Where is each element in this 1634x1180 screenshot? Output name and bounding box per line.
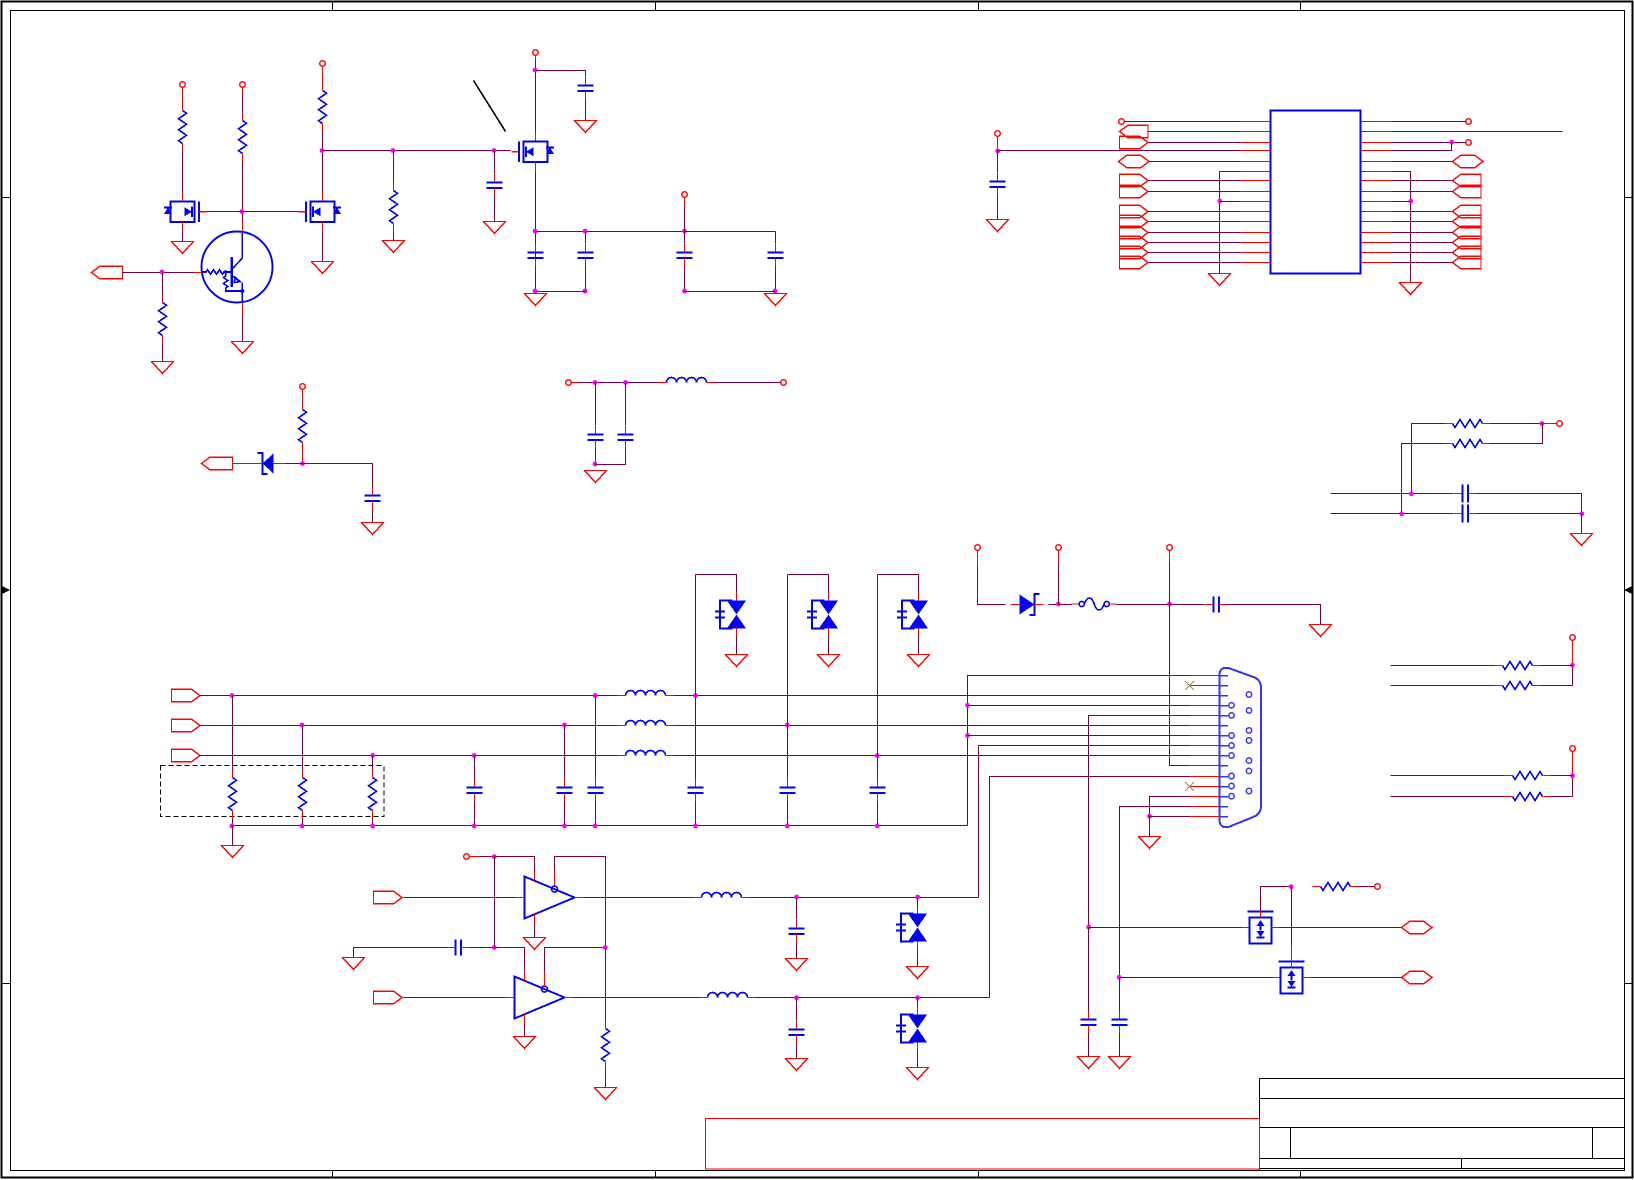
wire J29 down [302, 726, 304, 770]
wire J46 down [1088, 928, 1090, 1012]
lead P8 [977, 551, 979, 566]
power pin P18 [1570, 746, 1576, 752]
ground G14 [1400, 283, 1422, 295]
esd diode D9 [1273, 962, 1311, 994]
junction J41 [915, 895, 920, 900]
wire J40 down [796, 898, 798, 920]
wire R14 down [302, 819, 304, 826]
ground G-D3 [818, 655, 840, 667]
power pin P6 [300, 384, 306, 390]
wire J41 down [917, 898, 919, 906]
wire R7 left [1412, 424, 1445, 494]
ground G11 [585, 471, 607, 483]
lead D9 top [1291, 947, 1293, 962]
capacitor C6 [768, 244, 784, 267]
wire row4 [968, 705, 1190, 707]
flag F3 [1120, 174, 1149, 186]
wire R9 left [1391, 665, 1495, 667]
wire lineB [1331, 513, 1454, 515]
wire R11 right [1551, 775, 1573, 777]
lead U2 en [554, 871, 556, 886]
wire C18-J42 [470, 947, 495, 949]
input arrow A2 [202, 457, 233, 469]
wire F2-pin3 [1149, 142, 1241, 144]
junction J17 [593, 462, 598, 467]
lead T1 [571, 382, 579, 384]
wire Q2 source [182, 232, 184, 242]
junction J14 [300, 461, 305, 466]
wire J25-G15 [1581, 514, 1583, 534]
wire bottom C4-C3 [536, 291, 586, 293]
wire J42-U3 vcc [495, 948, 525, 972]
wire C8 down [595, 449, 597, 465]
lead D1-J14 [274, 463, 286, 465]
flag F9 [1120, 246, 1149, 258]
wire C15 up [595, 696, 597, 780]
capacitor C16 [1205, 597, 1228, 613]
resistor R3 [319, 83, 327, 132]
wire P5 down [684, 209, 686, 244]
wire A1-base [123, 272, 194, 274]
zener diode D5 [1011, 594, 1044, 615]
wire bus3 [201, 755, 618, 757]
ground G3 [383, 241, 405, 253]
power pin P16 [1557, 421, 1563, 427]
junction J22 [1540, 421, 1545, 426]
power pin P5 [682, 192, 688, 198]
junction J16 [623, 380, 628, 385]
wire bus2 b [674, 725, 1190, 727]
input arrow A5 [172, 749, 201, 761]
flag F12 [1453, 185, 1482, 197]
inductor L6 [700, 993, 756, 998]
lead P11 [470, 856, 481, 858]
wire D2 gnd [736, 637, 738, 655]
wire J10 right [685, 231, 776, 233]
wire C13 dn [474, 802, 476, 826]
wire fuse-J35 [1117, 604, 1170, 606]
flag F6 [1120, 215, 1149, 227]
wire R10 left [1391, 685, 1495, 687]
flag F13 [1453, 205, 1482, 217]
flag F16 [1453, 236, 1482, 248]
resistor R1 [179, 103, 187, 152]
junction J33 [370, 824, 375, 829]
junction J32 [300, 824, 305, 829]
junction J-C14t [562, 723, 567, 728]
input arrow A4 [172, 719, 201, 731]
flag F1 out [1120, 125, 1149, 137]
wire J43 down [605, 948, 607, 1021]
wire P4 down [535, 61, 537, 132]
junction J20 [1449, 140, 1454, 145]
wire J48 down [1291, 887, 1293, 947]
flag F10 [1120, 256, 1149, 268]
dashed box [161, 766, 384, 817]
input arrow A6 [374, 891, 403, 903]
junction J8 [583, 289, 588, 294]
ground G23 [595, 1088, 617, 1100]
junction J6 [533, 229, 538, 234]
tvs diode D6 [896, 906, 927, 950]
wire pin20-H2 [1392, 161, 1453, 163]
junction J35 [1167, 602, 1172, 607]
wire T1-L1 [579, 382, 659, 384]
border center arrow right [1624, 586, 1632, 594]
wire J39 down [494, 857, 496, 948]
ground G-D4 [908, 655, 930, 667]
wire C14 dn [564, 802, 566, 826]
lead P9 [1058, 550, 1060, 563]
junction J42 [492, 945, 497, 950]
resistor R10 [1495, 682, 1541, 690]
ground G5 [575, 121, 597, 133]
wire U2 out [584, 897, 694, 899]
ground G4 [484, 222, 506, 234]
fuse FU1 [1072, 598, 1117, 610]
wire P10 down [1169, 563, 1171, 605]
wire C5 down [684, 267, 686, 292]
wire P7-pin4 [998, 150, 1241, 152]
junction Jb-D2 [693, 824, 698, 829]
junction J24 [1399, 511, 1404, 516]
wire D4 gnd [918, 637, 920, 655]
wire J34-fuse [1059, 604, 1072, 606]
connector J2 pins right column [1246, 692, 1251, 794]
wire R13 down [232, 819, 234, 826]
capacitor C12 [1454, 505, 1477, 523]
wire P11-J39 [481, 856, 495, 858]
terminal T1 [566, 380, 572, 386]
junction J5 [533, 68, 538, 73]
wire row2 out [1120, 977, 1273, 979]
lead P17 [1572, 641, 1574, 666]
junction J-D4 [875, 753, 880, 758]
wire C15 dn [595, 802, 597, 826]
wire U2 enable loop [555, 857, 606, 948]
power pin P1 [180, 82, 186, 88]
wire R10 right [1541, 685, 1573, 687]
capacitor C13 [467, 779, 483, 802]
wire pin-F14 [1392, 221, 1453, 223]
flag F15 [1453, 226, 1482, 238]
IC U1 left pin stubs [1241, 122, 1271, 263]
input arrow A1 [92, 266, 123, 278]
power pin P9 [1056, 545, 1062, 551]
ground G17 [1310, 625, 1332, 637]
ground G21 [907, 967, 929, 979]
wire pin-F17 [1392, 252, 1453, 254]
wire L1-T2 [715, 382, 781, 384]
junction J15 [593, 380, 598, 385]
inductor L3b [618, 721, 674, 726]
inductor L1 [659, 378, 715, 383]
wire U2-G19 [534, 925, 536, 938]
lead R6 bottom [302, 451, 304, 464]
lead Q2 drain top [182, 192, 184, 202]
junction J18 [995, 149, 1000, 154]
inductor L5 [694, 893, 750, 898]
ground G16 [222, 846, 244, 858]
lead P2 [242, 87, 244, 97]
wire pin16-P14 [1392, 121, 1466, 123]
lead P6 [302, 389, 304, 407]
junction J3 [391, 148, 396, 153]
wire Q4 source down [535, 172, 537, 292]
power pin P11 [464, 854, 470, 860]
IC U1 [1271, 111, 1361, 274]
junction J43 [603, 945, 608, 950]
wire pin-F18 [1392, 262, 1453, 264]
wire C10-G12 [997, 196, 999, 220]
junction J7 [583, 229, 588, 234]
wire C1-G4 [494, 197, 496, 222]
wire C19-G25 [796, 1044, 798, 1059]
tvs diode D3 [807, 593, 838, 637]
junction J9 [533, 289, 538, 294]
wire D8-arrow [1280, 927, 1402, 929]
wire D3 cap dn [787, 802, 789, 826]
capacitor C17 [789, 920, 805, 943]
ground G27 [1078, 1057, 1100, 1069]
IC U1 right pin stubs [1362, 122, 1392, 263]
capacitor C5 [677, 244, 693, 267]
power pin P12 [1375, 884, 1381, 890]
power pin P10 [1167, 545, 1173, 551]
connector J2 pin stubs [1190, 676, 1220, 817]
junction J44 [794, 995, 799, 1000]
ground G20 [786, 959, 808, 971]
ground G13 [1209, 274, 1231, 286]
border zone ticks top [333, 2, 1301, 11]
zener diode D1 [254, 453, 283, 474]
wire R8 left [1402, 444, 1445, 514]
resistor R9 [1495, 662, 1541, 670]
wire bus2 [201, 725, 618, 727]
resistor R14 [299, 770, 307, 819]
ground G-D2 [726, 655, 748, 667]
junction J21 [1409, 199, 1414, 204]
wire C2-G5 [585, 100, 587, 121]
wire pin-F12 [1392, 191, 1453, 193]
junction J38 [1147, 814, 1152, 819]
wire row5 riser [1089, 716, 1190, 928]
capacitor C8 [588, 426, 604, 449]
resistor R17 [1313, 883, 1359, 891]
ground G10 [362, 523, 384, 535]
wire F6-pin [1149, 221, 1241, 223]
junction J45 [915, 995, 920, 1000]
resistor R2 [239, 113, 247, 162]
power pin P8 [975, 545, 981, 551]
junction J4 [492, 148, 497, 153]
junction J47 [1117, 975, 1122, 980]
capacitor C11 [1454, 485, 1477, 503]
capacitor C21 [1112, 1011, 1128, 1034]
junction J39 [492, 854, 497, 859]
wire J19-pin9 [1220, 201, 1241, 203]
border center arrow left [2, 586, 10, 594]
wire C7-G10 [372, 510, 374, 523]
wire J35 down [1170, 605, 1190, 766]
wire P2-R2 [242, 97, 244, 113]
junction J-C13b [472, 824, 477, 829]
wire J5-C2 [536, 71, 586, 77]
junction J19 [1218, 199, 1223, 204]
wire pin17 long [1392, 131, 1563, 133]
wire row15 [1150, 816, 1190, 818]
wire R1-M1 [182, 152, 184, 192]
junction J31 [230, 824, 235, 829]
flag F8 [1120, 236, 1149, 248]
lead P4 [535, 56, 537, 61]
resistor R7 [1445, 420, 1491, 428]
wire C17-G20 [796, 943, 798, 959]
wire D7-G26 [917, 1051, 919, 1068]
mosfet Q2 [164, 192, 207, 232]
junction J-C15b [593, 824, 598, 829]
wire C18 left [354, 948, 448, 958]
wire R12 left [1391, 796, 1505, 798]
capacitor C-D2 [688, 779, 704, 802]
wire P13-pin1 [1125, 121, 1241, 123]
capacitor C15 [588, 779, 604, 802]
wire R9 right [1541, 665, 1573, 667]
ground G28 [1109, 1057, 1131, 1069]
lead P18 [1572, 752, 1574, 776]
wire bus1 b [674, 695, 1190, 697]
inductor L4b [618, 751, 674, 756]
wire pin-F13 [1392, 211, 1453, 213]
wire R16-G23 [605, 1070, 607, 1088]
wire R7 right [1491, 423, 1542, 425]
revision red box [706, 1119, 1260, 1170]
wire gndbus stub [232, 826, 234, 846]
wire bus3 b [674, 755, 1190, 757]
junction J2 [320, 148, 325, 153]
junction J34 [1056, 602, 1061, 607]
wire R8 right [1491, 424, 1543, 444]
buffer U3 [506, 971, 574, 1025]
wire lineB right [1477, 513, 1582, 515]
resistor R11 [1505, 772, 1551, 780]
capacitor C-D4 [870, 779, 886, 802]
ground bus wire [233, 825, 968, 827]
connector J2 shell [1220, 668, 1262, 827]
junction J46 [1086, 925, 1091, 930]
wire R12 right [1551, 796, 1573, 798]
junction J-C14b [562, 824, 567, 829]
wire C9 down [596, 449, 626, 465]
wire J4 down [494, 151, 496, 174]
wire J47 down [1119, 978, 1121, 1012]
annotation slash [474, 81, 506, 132]
connector J2 pin traces [1220, 676, 1228, 817]
ground G18 [1139, 837, 1161, 849]
ground G15 [1571, 534, 1593, 546]
junction J10 [682, 229, 687, 234]
ground G24 [514, 1037, 536, 1049]
wire D2 riser [696, 575, 737, 593]
wire J3 down [393, 151, 395, 183]
wire C20-G27 [1088, 1034, 1090, 1057]
wire D4 riser [878, 575, 919, 593]
wire R11 left [1391, 775, 1505, 777]
wire D3 riser [788, 575, 829, 593]
ground G22 [343, 958, 365, 970]
power pin P13 [1119, 119, 1125, 125]
wire row7 [968, 735, 1190, 737]
capacitor C-D3 [780, 779, 796, 802]
wire row11 riser [990, 777, 1190, 998]
wire F7-pin [1149, 232, 1241, 234]
wire D2 cap dn [695, 802, 697, 826]
wire row14 riser [1120, 807, 1190, 978]
capacitor C9 [618, 426, 634, 449]
tvs diode D2 [715, 593, 746, 637]
wire F5-pin [1149, 211, 1241, 213]
junction J23 [1409, 491, 1414, 496]
inductor L2b [618, 691, 674, 696]
wire L5 right [750, 897, 979, 899]
junction J-D3 [785, 723, 790, 728]
power pin P2 [240, 82, 246, 88]
wire D4 cap dn [877, 802, 879, 826]
junction J29 [300, 723, 305, 728]
junction J13 [160, 270, 165, 275]
lead U3 enable [544, 971, 546, 987]
capacitor C14 [557, 779, 573, 802]
flag F14 [1453, 215, 1482, 227]
wire D1-J14 [286, 463, 303, 465]
tvs diode D4 [897, 593, 928, 637]
capacitor C19 [789, 1021, 805, 1044]
terminal T2 [781, 380, 787, 386]
wire P8 down [978, 566, 1006, 605]
wire cap C6 top [775, 232, 777, 244]
junction J26 [1570, 663, 1575, 668]
junction J48 [1289, 884, 1294, 889]
wire pin-F16 [1392, 242, 1453, 244]
wire lineA [1331, 493, 1454, 495]
wire Q3 source [322, 232, 324, 262]
capacitor C3 [578, 244, 594, 267]
junction J30 [370, 753, 375, 758]
wire C14 up [564, 726, 566, 780]
io arrow H3 [1402, 921, 1433, 933]
border zone ticks left [2, 198, 11, 984]
buffer U2 [516, 871, 584, 925]
wire bottom C5-C6 [685, 291, 776, 293]
resistor R15 [369, 770, 377, 819]
flag F17 [1453, 246, 1482, 258]
capacitor C10 [990, 173, 1006, 196]
wire R15 down [372, 819, 374, 826]
junction J27 [1570, 773, 1575, 778]
wire D2 top [695, 575, 697, 696]
transistor Q1 body [202, 232, 273, 303]
power pin P7 [995, 131, 1001, 137]
input arrow A3 [172, 689, 201, 701]
ground G2 [312, 262, 334, 274]
wire C3 down [585, 267, 587, 292]
junction J1 [240, 209, 245, 214]
wire U3-G24 [524, 1025, 526, 1037]
wire row1 out [1089, 927, 1242, 929]
wire P9 down [1058, 563, 1060, 605]
wire P17 down [1572, 666, 1574, 686]
wire riser ground bus [968, 676, 1190, 826]
